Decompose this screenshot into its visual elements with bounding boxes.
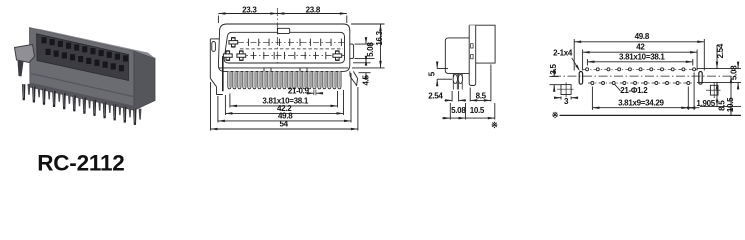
svg-text:3.81x10=38.1: 3.81x10=38.1: [619, 53, 665, 62]
dimension 8.5 (pcb layout right): [700, 82, 741, 110]
svg-text:3.81x9=34.29: 3.81x9=34.29: [618, 98, 664, 107]
dimension 42.2 (front): [225, 90, 343, 115]
svg-text:2.54: 2.54: [428, 91, 443, 100]
dimension 3 (pcb layout left pad): [554, 96, 578, 106]
front view: vertical center line: [276, 8, 278, 63]
photo: body right end cap: [134, 51, 155, 110]
front view: right latch slot: [350, 44, 354, 59]
dimension 5 (side, pin length): [428, 62, 452, 87]
dimension 2.54 (pcb layout right): [697, 43, 741, 68]
front view: jack bolt bottom-right: [333, 51, 342, 60]
front view: top center tab: [278, 28, 290, 33]
front view: jack bolt bottom-left-2: [237, 51, 246, 60]
svg-text:21-0.9: 21-0.9: [288, 87, 310, 96]
pcb layout: left 1x4 slot: [579, 72, 582, 85]
side view: flange slot marks: [471, 44, 474, 59]
photo: back row of pins: [28, 84, 142, 120]
dimension 2.54 (side, pin row pitch): [428, 91, 466, 102]
svg-text:42: 42: [636, 42, 645, 51]
dimension 1.905 (pcb layout): [683, 73, 716, 111]
photo: front recess (socket opening): [37, 34, 129, 81]
photo: left mounting flange: [15, 45, 35, 63]
photo: front row of pins: [22, 84, 137, 125]
svg-text:10.5: 10.5: [726, 97, 735, 112]
side view: rear body block: [469, 25, 495, 63]
photo: body bottom lip: [30, 83, 134, 111]
dimension 21-0.9 (pin width): [288, 87, 323, 96]
dimension 42 (pcb layout): [583, 42, 698, 70]
svg-text:21-Φ1.2: 21-Φ1.2: [620, 86, 648, 95]
front view: base seam line: [219, 67, 349, 69]
front view: contact row 1 center line: [238, 41, 344, 43]
photo: main body front face: [30, 28, 135, 111]
front view: contacts row 2 ticks: [254, 52, 337, 59]
dimension 5.08 (pcb layout right): [697, 62, 741, 90]
svg-text:※: ※: [491, 121, 498, 130]
svg-text:2.54: 2.54: [716, 43, 725, 58]
pcb layout: top row holes (11): [586, 68, 696, 71]
front view: jack bolt top-left: [229, 38, 238, 47]
label 21-phi1.2 with leader: [615, 84, 649, 95]
svg-text:2-1x4: 2-1x4: [553, 49, 573, 58]
pcb layout: top hole row center line: [583, 68, 698, 70]
svg-text:10.5: 10.5: [470, 106, 485, 115]
svg-text:23.3: 23.3: [242, 5, 257, 14]
front view: contact row 2 center line: [238, 55, 344, 57]
dimension 4.5 (front right base height): [353, 56, 371, 86]
pcb layout: left 3mm square pad: [557, 82, 574, 97]
pcb layout: bottom hole row center line: [588, 82, 693, 84]
front view: bottom tab 2: [300, 68, 307, 72]
pcb layout: bottom row holes (10): [591, 82, 690, 85]
reference note line under pcb layout: [552, 111, 741, 120]
dimension 8.5 (side, body depth): [470, 65, 491, 102]
svg-text:※: ※: [552, 111, 559, 120]
svg-text:3.5: 3.5: [549, 64, 558, 75]
dimension 54 (front overall width): [211, 82, 358, 131]
dimension 3.81x9=34.29 (pcb layout): [592, 87, 688, 111]
dimension 16.3 (front right overall height): [351, 24, 385, 68]
side view: mounting flange strip: [469, 25, 476, 85]
svg-text:4.5: 4.5: [361, 74, 370, 85]
svg-text:16.3: 16.3: [375, 30, 384, 45]
dimension 49.8 (front): [218, 73, 351, 123]
dimension 23.8 (front top right): [277, 5, 347, 14]
front view: jack bolt bottom-left-1: [223, 51, 232, 60]
front view: right support leg: [350, 71, 358, 85]
front view: inner shroud outline: [224, 32, 344, 63]
svg-text:8.5: 8.5: [476, 91, 487, 100]
dimension 10.5 (pcb layout right): [726, 76, 735, 115]
photo: lower front band groove: [31, 74, 133, 97]
photo: body top face strip: [30, 28, 156, 59]
front view: outer shell outline: [218, 24, 349, 71]
front view: contacts row 1 ticks: [248, 39, 341, 46]
svg-text:54: 54: [280, 120, 289, 129]
dimension 3.81x10=38.1 (pcb layout): [587, 53, 692, 66]
dimension 5.08 (front right, latch height): [355, 37, 375, 66]
dimension 3.5 (pcb layout left): [549, 64, 561, 92]
side view: front shroud block: [445, 38, 471, 74]
svg-text:49.8: 49.8: [635, 32, 650, 41]
dimension 23.3 (front top left): [218, 5, 346, 23]
svg-text:5.08: 5.08: [366, 42, 375, 57]
pcb layout: horizontal center line: [552, 75, 737, 77]
front view: pin comb: [228, 71, 341, 88]
svg-text:5.08: 5.08: [451, 106, 466, 115]
photo: socket holes top row: [42, 37, 129, 61]
svg-text:RC-2112: RC-2112: [37, 150, 124, 174]
label 2-1x4 with leader: [553, 49, 580, 72]
photo: socket holes bottom row: [46, 49, 125, 71]
svg-text:5: 5: [428, 71, 437, 76]
pcb layout: right square pad: [706, 82, 721, 98]
svg-text:23.8: 23.8: [306, 5, 321, 14]
dimension 5.08 and 10.5 (side, depths): [442, 103, 495, 120]
dimension 3.81x10=38.1 (front): [230, 91, 338, 108]
side view: solder pins with eyelets: [453, 73, 463, 89]
front view: left bracket: [210, 39, 223, 95]
svg-text:3: 3: [564, 97, 569, 106]
front view: mid dashed line: [240, 48, 343, 50]
connector photo: 3D isometric RC-2112 socket: [15, 28, 156, 125]
dimension 49.8 (pcb layout): [574, 32, 704, 70]
front view: bottom tab 1: [264, 68, 271, 72]
pcb layout: right 1x4 slot: [699, 72, 702, 85]
photo: flange front pin: [18, 61, 24, 77]
